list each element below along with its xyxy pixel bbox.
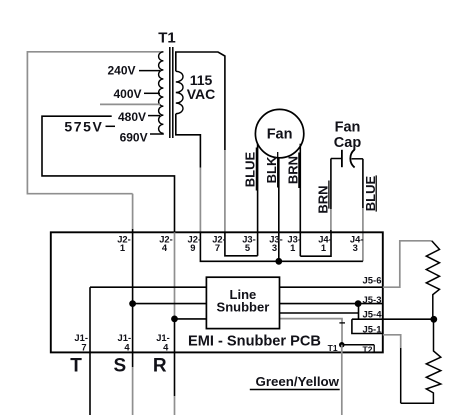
wire: gray rail to T1 terminal: [280, 319, 343, 345]
wire: snubber right stub y=313: [280, 312, 359, 314]
fan motor M1: [255, 109, 303, 157]
wire: 240V tap: [139, 70, 160, 72]
svg-text:T2: T2: [363, 344, 373, 354]
svg-text:VAC: VAC: [187, 86, 216, 102]
svg-text:Cap: Cap: [334, 135, 362, 151]
svg-text:T1: T1: [328, 343, 338, 353]
svg-text:BLK: BLK: [264, 156, 279, 183]
junction dot J3-3: [275, 258, 282, 265]
capacitor C1 (fan cap): [331, 158, 342, 160]
wire: J5-1 notch: [352, 319, 383, 333]
svg-text:7: 7: [81, 342, 86, 353]
svg-text:BLUE: BLUE: [363, 175, 378, 211]
wire: J2-9 / J3-3 / J4-3 net: [200, 232, 363, 261]
wire: fan BLK lead to J3-3: [278, 158, 280, 261]
wire: T1 to T2 link: [342, 344, 374, 346]
wire: 575V leader dash: [106, 125, 116, 127]
tick on T1 drop: [339, 322, 345, 324]
transformer T1 primary winding: [159, 52, 164, 134]
svg-text:7: 7: [215, 242, 220, 253]
svg-text:Snubber: Snubber: [217, 300, 270, 315]
wire: rail A (T phase to J5-6): [90, 286, 383, 288]
svg-text:EMI - Snubber PCB: EMI - Snubber PCB: [188, 333, 321, 349]
wire: left rail drop to J2-1: [132, 194, 134, 229]
svg-text:R: R: [153, 355, 167, 376]
junction dot T1: [339, 342, 345, 348]
svg-text:1: 1: [290, 242, 295, 253]
svg-text:1: 1: [321, 242, 326, 253]
svg-text:Green/Yellow: Green/Yellow: [256, 374, 340, 389]
wire: J2-7 to J3-5 link: [225, 232, 258, 256]
wire: rail B (J2-1 to J5-3): [133, 303, 383, 305]
wire: secondary top lead: [176, 52, 225, 150]
wire: fan BLUE lead to J3-5: [257, 144, 259, 256]
svg-text:575V: 575V: [64, 119, 103, 135]
svg-text:Fan: Fan: [335, 120, 361, 136]
transformer T1 secondary winding: [176, 71, 183, 113]
wire: 480V line to left and down to J2-4: [42, 116, 175, 232]
svg-text:T1: T1: [158, 30, 176, 47]
wire: 480V tap right stub: [148, 115, 160, 117]
svg-text:BLUE: BLUE: [243, 151, 258, 187]
wire: J3-1 to J4-1 link: [300, 232, 331, 256]
wire: fan BRN lead to J3-1: [299, 144, 301, 257]
junction dot J5-4 / resistors: [430, 316, 437, 323]
svg-text:4: 4: [124, 342, 130, 353]
wire: J2-4 gray drop inside PCB: [174, 232, 176, 319]
wire: cap BLUE lead to J4-3: [362, 159, 364, 208]
wire: cap BRN lead to J4-1: [330, 159, 332, 210]
wire: T phase J1-7 vertical: [89, 287, 91, 415]
junction dot J5-3: [355, 300, 362, 307]
svg-text:J5-1: J5-1: [362, 325, 382, 336]
junction dot J2-4/rail C: [171, 316, 178, 323]
wire: primary top lead from T1 to left rail (gray): [27, 52, 163, 194]
svg-text:S: S: [113, 355, 126, 376]
svg-text:BRN: BRN: [315, 185, 330, 213]
svg-text:4: 4: [162, 242, 168, 253]
svg-text:1: 1: [120, 242, 125, 253]
svg-text:J5-4: J5-4: [362, 310, 382, 321]
wire: 690V tap / primary bottom lead: [150, 133, 164, 135]
wire: secondary bottom lead to J2-9: [176, 114, 201, 168]
svg-text:240V: 240V: [107, 64, 135, 78]
svg-text:400V: 400V: [113, 87, 141, 101]
resistor R1: [426, 241, 439, 319]
EMI-Snubber PCB box: [51, 232, 383, 352]
svg-text:J5-3: J5-3: [362, 295, 381, 306]
wire: J2-4 drop below dot to J1-4 and R: [174, 319, 176, 396]
svg-text:J5-6: J5-6: [362, 276, 381, 287]
wire: rail C right (J5-4 out to resistors): [352, 318, 434, 320]
svg-text:480V: 480V: [118, 110, 146, 124]
wire: rail C left (J2-4 dot to snubber): [175, 318, 207, 320]
wire: J5-3 drop to J5-4 rail: [358, 304, 360, 320]
wire: J5-6 external gray loop to R1 top: [383, 241, 432, 287]
transformer T1 core: [169, 47, 171, 138]
svg-text:5: 5: [245, 242, 250, 253]
svg-text:690V: 690V: [120, 130, 148, 144]
junction dot J2-1/rail B: [129, 300, 136, 307]
svg-text:T: T: [70, 355, 82, 376]
svg-text:9: 9: [190, 242, 195, 253]
svg-text:Fan: Fan: [267, 126, 293, 142]
wire: J5-1 external loop to R2 bottom: [383, 335, 401, 348]
svg-text:4: 4: [163, 342, 169, 353]
wire: 400V tap: [144, 92, 160, 94]
wire: secondary right lead to J2-7 (gray lower part): [224, 150, 226, 232]
wire: T1 gray drop to bottom: [341, 345, 343, 415]
svg-text:BRN: BRN: [285, 156, 300, 184]
line snubber box: [206, 277, 279, 328]
wire: 400V gray stub: [100, 103, 160, 105]
svg-text:3: 3: [272, 242, 277, 253]
svg-text:3: 3: [353, 242, 358, 253]
resistor R2: [401, 319, 441, 403]
